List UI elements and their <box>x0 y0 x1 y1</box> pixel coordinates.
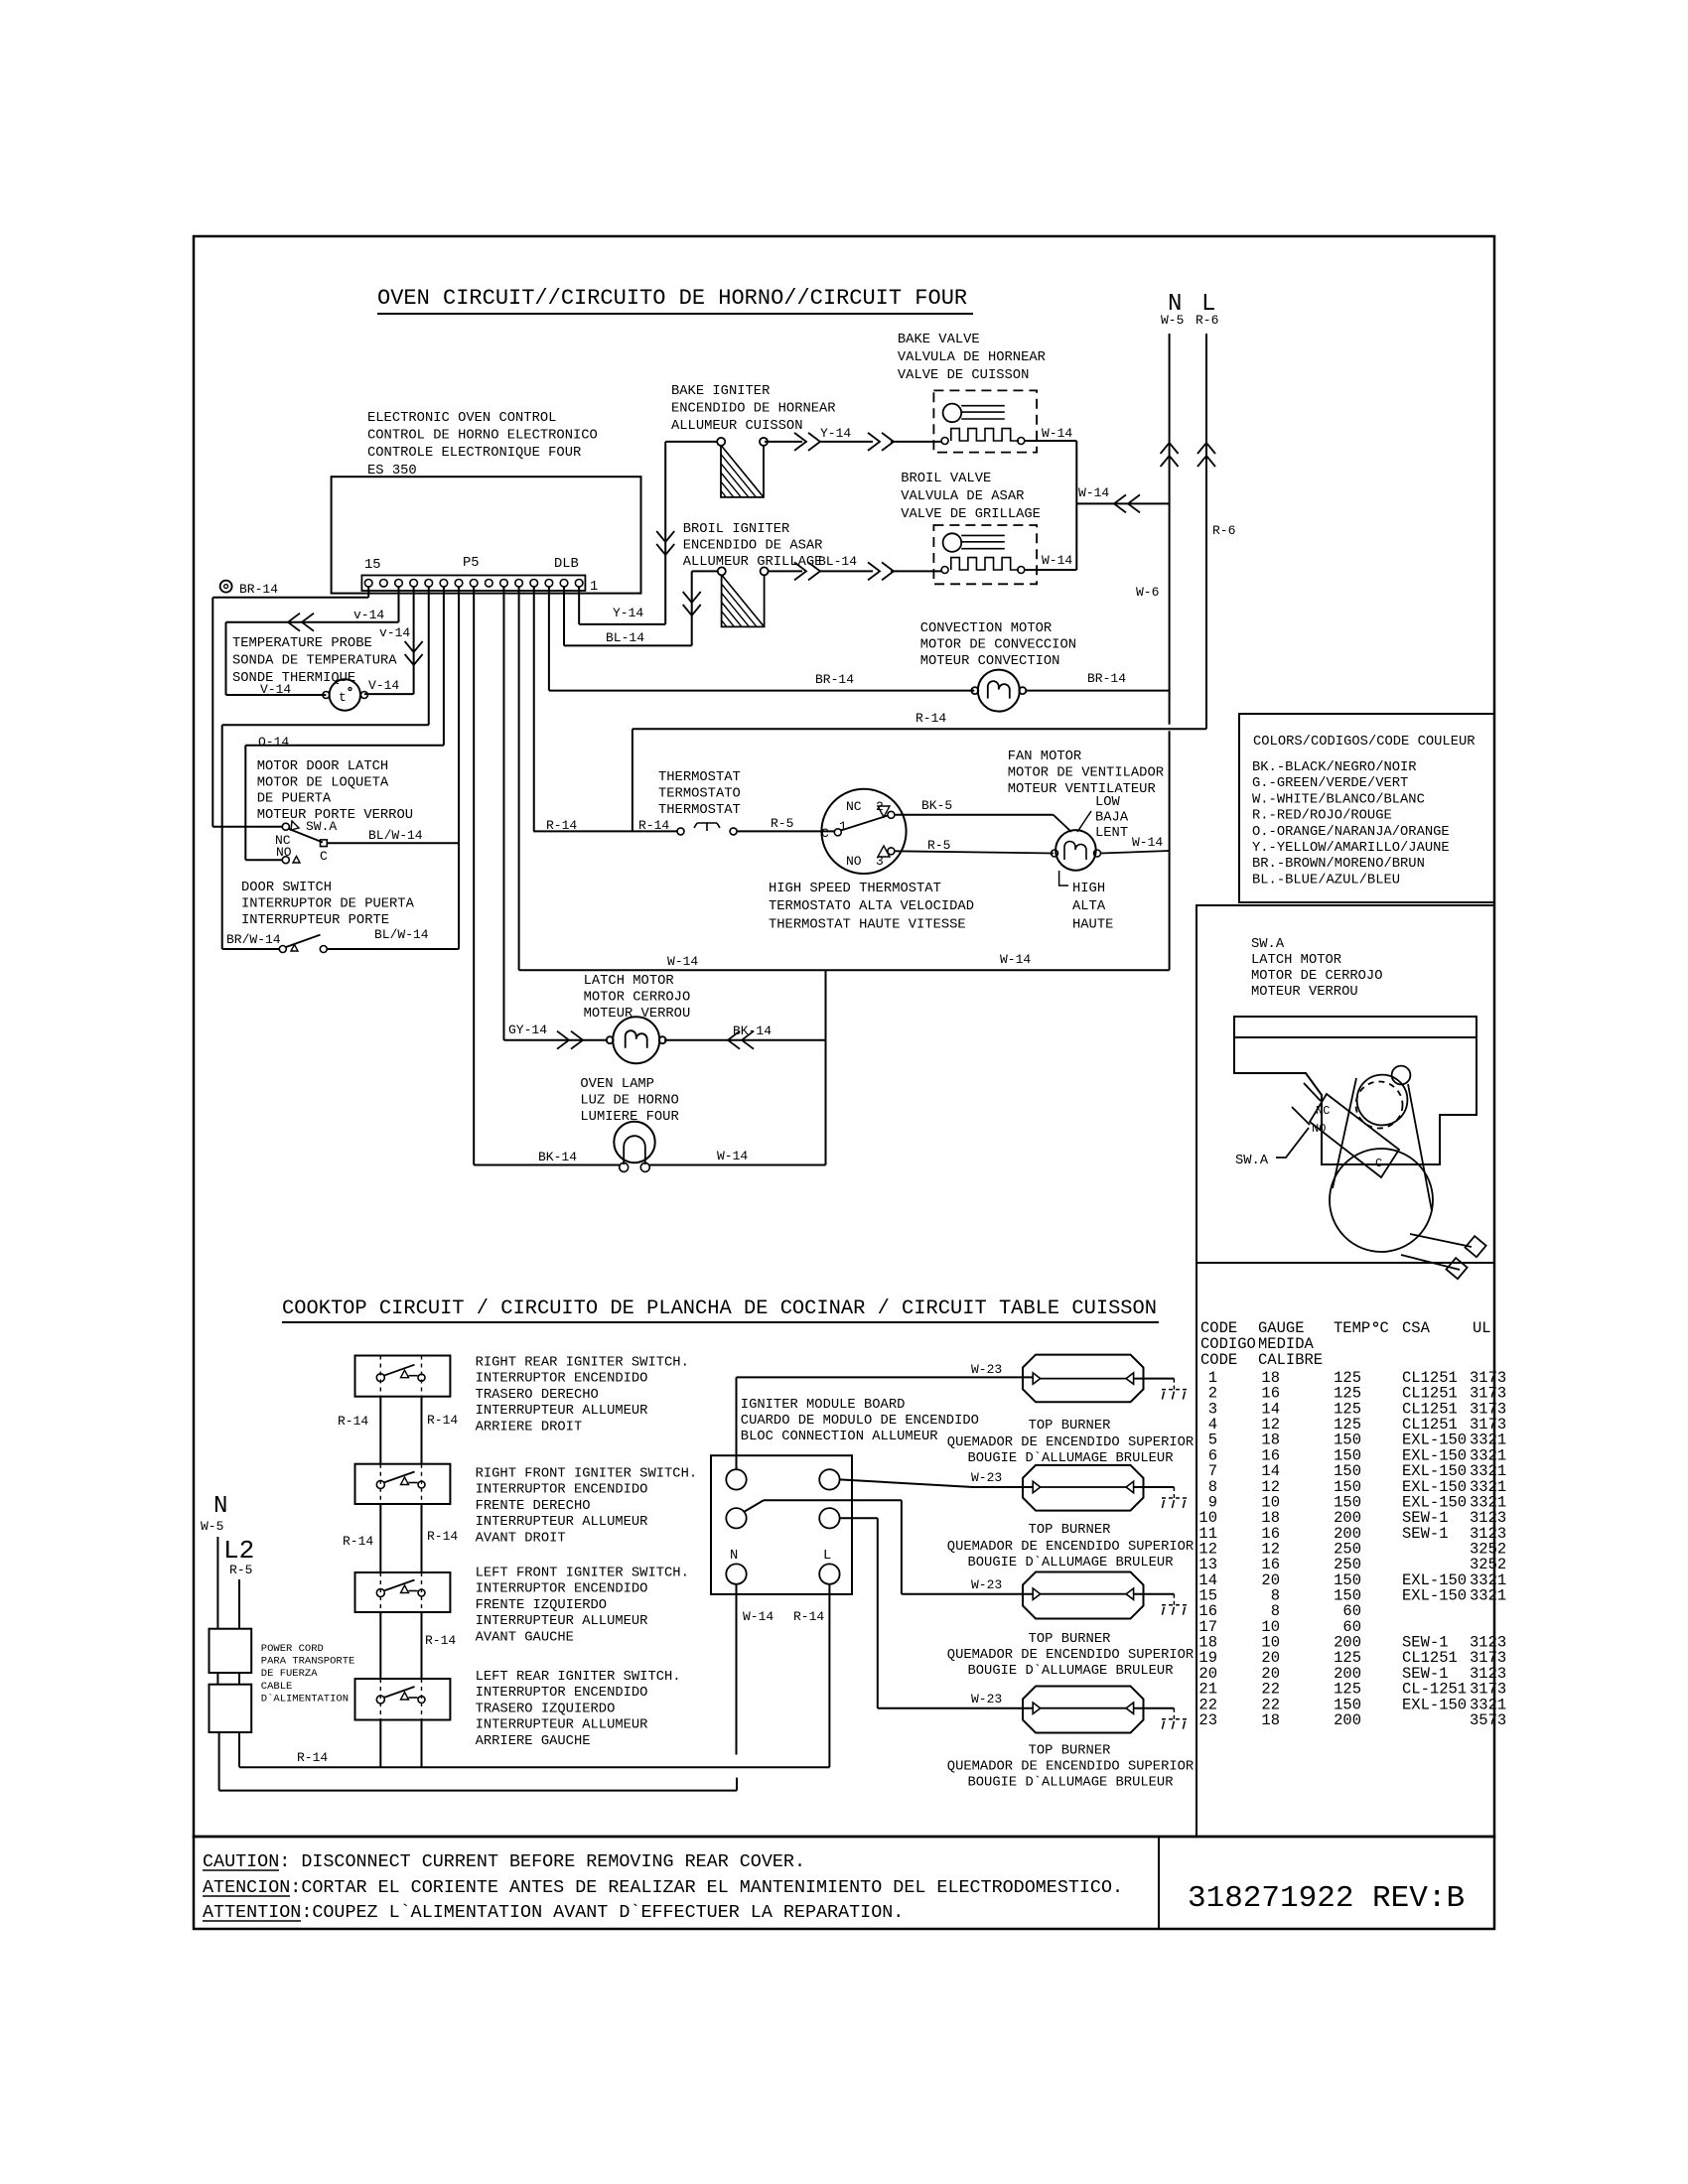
svg-text:P5: P5 <box>463 556 480 571</box>
svg-text:W-23: W-23 <box>971 1470 1002 1485</box>
svg-text:BR-14: BR-14 <box>815 672 854 687</box>
svg-text:TERMOSTATO ALTA VELOCIDAD: TERMOSTATO ALTA VELOCIDAD <box>769 899 974 914</box>
svg-text:BK.-BLACK/NEGRO/NOIR: BK.-BLACK/NEGRO/NOIR <box>1252 759 1417 775</box>
svg-text:FRENTE DERECHO: FRENTE DERECHO <box>476 1499 591 1514</box>
svg-text:BR.-BROWN/MORENO/BRUN: BR.-BROWN/MORENO/BRUN <box>1252 856 1425 872</box>
svg-text:2: 2 <box>876 799 884 814</box>
svg-text:INTERRUPTOR ENCENDIDO: INTERRUPTOR ENCENDIDO <box>476 1686 648 1701</box>
svg-text:MOTOR DE CONVECCION: MOTOR DE CONVECCION <box>920 638 1076 653</box>
svg-text:V-14: V-14 <box>368 678 399 693</box>
svg-text:O.-ORANGE/NARANJA/ORANGE: O.-ORANGE/NARANJA/ORANGE <box>1252 824 1450 840</box>
svg-text:INTERRUPTEUR ALLUMEUR: INTERRUPTEUR ALLUMEUR <box>476 1404 648 1419</box>
svg-text:ELECTRONIC OVEN CONTROL: ELECTRONIC OVEN CONTROL <box>367 411 556 426</box>
svg-text:BOUGIE D`ALLUMAGE BRULEUR: BOUGIE D`ALLUMAGE BRULEUR <box>968 1775 1174 1791</box>
svg-text:Y.-YELLOW/AMARILLO/JAUNE: Y.-YELLOW/AMARILLO/JAUNE <box>1252 840 1450 856</box>
svg-text:MOTOR DOOR LATCH: MOTOR DOOR LATCH <box>257 759 388 774</box>
svg-text:TOP BURNER: TOP BURNER <box>1029 1419 1111 1433</box>
svg-text:W-5: W-5 <box>1161 313 1184 328</box>
svg-text:ALTA: ALTA <box>1072 899 1106 914</box>
svg-text:R-14: R-14 <box>793 1609 824 1624</box>
svg-text:Y-14: Y-14 <box>613 606 643 620</box>
svg-text:NC: NC <box>1316 1104 1330 1118</box>
svg-text:CODE: CODE <box>1200 1351 1237 1369</box>
svg-text:BL.-BLUE/AZUL/BLEU: BL.-BLUE/AZUL/BLEU <box>1252 872 1400 887</box>
svg-text:GY-14: GY-14 <box>508 1023 547 1037</box>
svg-text:200: 200 <box>1334 1711 1361 1729</box>
svg-text:BR/W-14: BR/W-14 <box>226 932 281 947</box>
svg-text:D`ALIMENTATION: D`ALIMENTATION <box>261 1692 349 1705</box>
svg-text:CABLE: CABLE <box>261 1681 293 1693</box>
svg-text:VALVE DE GRILLAGE: VALVE DE GRILLAGE <box>901 507 1041 522</box>
svg-text:BAJA: BAJA <box>1095 811 1129 826</box>
svg-text:NO: NO <box>846 854 862 869</box>
svg-text:COOKTOP CIRCUIT / CIRCUITO DE: COOKTOP CIRCUIT / CIRCUITO DE PLANCHA DE… <box>282 1297 1157 1320</box>
svg-text:R-14: R-14 <box>915 711 946 726</box>
svg-text:23: 23 <box>1198 1711 1217 1729</box>
svg-text:TEMP C: TEMP C <box>1334 1319 1389 1337</box>
svg-text:DE FUERZA: DE FUERZA <box>261 1668 318 1680</box>
svg-text:TERMOSTATO: TERMOSTATO <box>658 787 741 802</box>
svg-text:W-14: W-14 <box>1042 553 1072 568</box>
svg-text:SW.A: SW.A <box>1251 937 1285 952</box>
svg-text:R-14: R-14 <box>427 1413 458 1428</box>
svg-text:CAUTION: DISCONNECT CURRENT BE: CAUTION: DISCONNECT CURRENT BEFORE REMOV… <box>203 1851 805 1872</box>
svg-text:W-14: W-14 <box>1132 835 1163 850</box>
svg-text:O-14: O-14 <box>258 735 289 750</box>
svg-text:W-23: W-23 <box>971 1362 1002 1377</box>
svg-text:L2: L2 <box>223 1536 254 1566</box>
svg-text:R.-RED/ROJO/ROUGE: R.-RED/ROJO/ROUGE <box>1252 808 1392 824</box>
svg-text:BR-14: BR-14 <box>1087 671 1126 686</box>
svg-text:INTERRUPTEUR ALLUMEUR: INTERRUPTEUR ALLUMEUR <box>476 1718 648 1733</box>
svg-text:N: N <box>730 1549 738 1564</box>
svg-text:INTERRUPTOR ENCENDIDO: INTERRUPTOR ENCENDIDO <box>476 1372 648 1387</box>
svg-text:R-6: R-6 <box>1212 523 1235 538</box>
svg-text:THERMOSTAT HAUTE VITESSE: THERMOSTAT HAUTE VITESSE <box>769 917 966 932</box>
svg-text:QUEMADOR DE ENCENDIDO SUPERIOR: QUEMADOR DE ENCENDIDO SUPERIOR <box>947 1648 1194 1663</box>
svg-text:TOP BURNER: TOP BURNER <box>1029 1523 1111 1538</box>
svg-text:ES 350: ES 350 <box>367 464 417 478</box>
svg-text:ENCENDIDO DE ASAR: ENCENDIDO DE ASAR <box>683 539 823 554</box>
svg-text:R-6: R-6 <box>1196 313 1218 328</box>
svg-text:BK-14: BK-14 <box>733 1024 772 1038</box>
svg-text:FAN MOTOR: FAN MOTOR <box>1008 750 1082 764</box>
svg-text:CONTROL DE HORNO ELECTRONICO: CONTROL DE HORNO ELECTRONICO <box>367 429 598 444</box>
svg-text:W-14: W-14 <box>1000 952 1031 967</box>
svg-text:R-5: R-5 <box>771 816 793 831</box>
svg-text:3573: 3573 <box>1470 1711 1506 1729</box>
svg-text:INTERRUPTOR ENCENDIDO: INTERRUPTOR ENCENDIDO <box>476 1582 648 1597</box>
svg-text:LATCH MOTOR: LATCH MOTOR <box>1251 953 1341 968</box>
svg-text:Y-14: Y-14 <box>820 426 851 441</box>
svg-text:INTERRUPTOR DE PUERTA: INTERRUPTOR DE PUERTA <box>241 897 415 912</box>
svg-text:318271922 REV:B: 318271922 REV:B <box>1188 1881 1465 1916</box>
svg-text:N: N <box>213 1493 227 1520</box>
svg-text:MOTEUR VERROU: MOTEUR VERROU <box>584 1007 691 1022</box>
svg-text:VALVULA DE HORNEAR: VALVULA DE HORNEAR <box>898 350 1046 365</box>
svg-text:VALVULA DE ASAR: VALVULA DE ASAR <box>901 489 1024 504</box>
svg-text:3321: 3321 <box>1470 1587 1506 1605</box>
svg-text:W-14: W-14 <box>1078 485 1109 500</box>
svg-text:SW.A: SW.A <box>306 819 337 834</box>
svg-text:MOTOR DE LOQUETA: MOTOR DE LOQUETA <box>257 775 389 790</box>
svg-text:LATCH MOTOR: LATCH MOTOR <box>584 974 674 989</box>
svg-text:W-23: W-23 <box>971 1692 1002 1706</box>
svg-text:QUEMADOR DE ENCENDIDO SUPERIOR: QUEMADOR DE ENCENDIDO SUPERIOR <box>947 1540 1194 1555</box>
svg-text:CONVECTION MOTOR: CONVECTION MOTOR <box>920 621 1052 636</box>
svg-text:C: C <box>821 826 829 841</box>
svg-text:NO: NO <box>1312 1122 1326 1136</box>
svg-text:OVEN LAMP: OVEN LAMP <box>580 1077 654 1092</box>
svg-text:UL: UL <box>1473 1319 1491 1337</box>
svg-text:VALVE DE CUISSON: VALVE DE CUISSON <box>898 368 1029 383</box>
svg-text:INTERRUPTEUR ALLUMEUR: INTERRUPTEUR ALLUMEUR <box>476 1515 648 1530</box>
svg-text:LUZ DE HORNO: LUZ DE HORNO <box>580 1094 678 1109</box>
svg-text:THERMOSTAT: THERMOSTAT <box>658 803 741 818</box>
svg-text:INTERRUPTEUR ALLUMEUR: INTERRUPTEUR ALLUMEUR <box>476 1614 648 1629</box>
svg-text:CSA: CSA <box>1402 1319 1431 1337</box>
svg-text:MOTEUR CONVECTION: MOTEUR CONVECTION <box>920 654 1060 669</box>
svg-text:RIGHT REAR IGNITER SWITCH.: RIGHT REAR IGNITER SWITCH. <box>476 1356 689 1371</box>
svg-text:TEMPERATURE PROBE: TEMPERATURE PROBE <box>232 636 372 651</box>
svg-text:DE PUERTA: DE PUERTA <box>257 792 332 807</box>
svg-text:SONDA DE TEMPERATURA: SONDA DE TEMPERATURA <box>232 654 397 669</box>
svg-text:BAKE IGNITER: BAKE IGNITER <box>671 384 770 399</box>
svg-text:TOP BURNER: TOP BURNER <box>1029 1744 1111 1759</box>
svg-text:W.-WHITE/BLANCO/BLANC: W.-WHITE/BLANCO/BLANC <box>1252 791 1425 807</box>
svg-text:EXL-150: EXL-150 <box>1402 1587 1467 1605</box>
svg-text:MOTOR DE CERROJO: MOTOR DE CERROJO <box>1251 969 1382 984</box>
svg-text:BOUGIE D`ALLUMAGE BRULEUR: BOUGIE D`ALLUMAGE BRULEUR <box>968 1663 1174 1679</box>
svg-text:1: 1 <box>839 819 847 834</box>
svg-text:HIGH SPEED THERMOSTAT: HIGH SPEED THERMOSTAT <box>769 882 941 896</box>
svg-text:W-14: W-14 <box>667 954 698 969</box>
svg-text:RIGHT FRONT IGNITER SWITCH.: RIGHT FRONT IGNITER SWITCH. <box>476 1467 698 1482</box>
svg-text:1: 1 <box>590 580 598 595</box>
svg-text:BK-14: BK-14 <box>538 1150 577 1164</box>
svg-text:PARA TRANSPORTE: PARA TRANSPORTE <box>261 1656 355 1668</box>
svg-text:W-14: W-14 <box>743 1609 774 1624</box>
svg-text:C: C <box>320 849 328 864</box>
svg-text:BROIL IGNITER: BROIL IGNITER <box>683 522 790 537</box>
svg-text:BL-14: BL-14 <box>606 630 644 645</box>
svg-text:HIGH: HIGH <box>1072 882 1105 896</box>
svg-text:BL/W-14: BL/W-14 <box>368 828 423 843</box>
svg-text:SW.A: SW.A <box>1235 1154 1269 1168</box>
svg-text:QUEMADOR DE ENCENDIDO SUPERIOR: QUEMADOR DE ENCENDIDO SUPERIOR <box>947 1435 1194 1450</box>
svg-text:R-5: R-5 <box>927 838 950 853</box>
svg-text:AVANT DROIT: AVANT DROIT <box>476 1531 566 1546</box>
svg-text:AVANT GAUCHE: AVANT GAUCHE <box>476 1630 574 1645</box>
svg-text:SEW-1: SEW-1 <box>1402 1525 1449 1543</box>
svg-text:W-14: W-14 <box>1042 426 1072 441</box>
svg-text:INTERRUPTEUR PORTE: INTERRUPTEUR PORTE <box>241 913 389 928</box>
svg-text:OVEN CIRCUIT//CIRCUITO DE HORN: OVEN CIRCUIT//CIRCUITO DE HORNO//CIRCUIT… <box>377 286 967 311</box>
svg-text:MOTOR DE VENTILADOR: MOTOR DE VENTILADOR <box>1008 766 1164 781</box>
svg-text:C: C <box>1375 1157 1382 1170</box>
svg-text:LENT: LENT <box>1095 826 1128 841</box>
svg-text:R-14: R-14 <box>425 1633 456 1648</box>
svg-text:LEFT REAR IGNITER SWITCH.: LEFT REAR IGNITER SWITCH. <box>476 1670 681 1685</box>
svg-text:L: L <box>823 1549 831 1564</box>
svg-text:CONTROLE ELECTRONIQUE FOUR: CONTROLE ELECTRONIQUE FOUR <box>367 446 581 461</box>
svg-text:DOOR SWITCH: DOOR SWITCH <box>241 881 332 895</box>
svg-text:R-14: R-14 <box>343 1534 373 1549</box>
svg-text:15: 15 <box>364 558 381 573</box>
svg-text:CUARDO DE MODULO DE ENCENDIDO: CUARDO DE MODULO DE ENCENDIDO <box>741 1414 979 1429</box>
svg-text:ALLUMEUR CUISSON: ALLUMEUR CUISSON <box>671 419 802 434</box>
svg-text:ARRIERE GAUCHE: ARRIERE GAUCHE <box>476 1734 591 1749</box>
svg-text:THERMOSTAT: THERMOSTAT <box>658 770 741 785</box>
svg-text:TRASERO IZQUIERDO: TRASERO IZQUIERDO <box>476 1702 616 1716</box>
svg-text:W-23: W-23 <box>971 1577 1002 1592</box>
svg-text:v-14: v-14 <box>379 625 410 640</box>
svg-text:ENCENDIDO DE HORNEAR: ENCENDIDO DE HORNEAR <box>671 402 836 417</box>
svg-text:R-14: R-14 <box>427 1529 458 1544</box>
svg-text:R-14: R-14 <box>297 1750 328 1765</box>
svg-text:G.-GREEN/VERDE/VERT: G.-GREEN/VERDE/VERT <box>1252 775 1408 791</box>
svg-text:SONDE THERMIQUE: SONDE THERMIQUE <box>232 671 355 686</box>
svg-text:EXL-150: EXL-150 <box>1402 1696 1467 1713</box>
svg-text:ATTENTION:COUPEZ L`ALIMENTATIO: ATTENTION:COUPEZ L`ALIMENTATION AVANT D`… <box>203 1902 904 1923</box>
svg-text:BOUGIE D`ALLUMAGE BRULEUR: BOUGIE D`ALLUMAGE BRULEUR <box>968 1450 1174 1466</box>
svg-text:t: t <box>339 690 347 705</box>
svg-text:BOUGIE D`ALLUMAGE BRULEUR: BOUGIE D`ALLUMAGE BRULEUR <box>968 1555 1174 1570</box>
svg-text:BL-14: BL-14 <box>818 554 857 569</box>
svg-text:3: 3 <box>876 854 884 869</box>
svg-text:BK-5: BK-5 <box>921 798 952 813</box>
svg-text:ARRIERE DROIT: ARRIERE DROIT <box>476 1420 583 1434</box>
svg-text:LOW: LOW <box>1095 795 1121 810</box>
svg-text:IGNITER MODULE BOARD: IGNITER MODULE BOARD <box>741 1398 906 1413</box>
svg-text:MOTEUR VENTILATEUR: MOTEUR VENTILATEUR <box>1008 782 1156 797</box>
svg-text:COLORS/CODIGOS/CODE COULEUR: COLORS/CODIGOS/CODE COULEUR <box>1253 734 1476 750</box>
svg-text:INTERRUPTOR ENCENDIDO: INTERRUPTOR ENCENDIDO <box>476 1483 648 1498</box>
svg-text:BR-14: BR-14 <box>239 582 278 597</box>
svg-text:DLB: DLB <box>554 557 579 572</box>
svg-text:W-6: W-6 <box>1136 585 1159 600</box>
svg-text:BL/W-14: BL/W-14 <box>374 927 429 942</box>
svg-text:LEFT FRONT IGNITER SWITCH.: LEFT FRONT IGNITER SWITCH. <box>476 1567 689 1581</box>
svg-text:v-14: v-14 <box>353 608 384 622</box>
svg-text:POWER CORD: POWER CORD <box>261 1643 324 1655</box>
svg-text:BAKE VALVE: BAKE VALVE <box>898 333 980 347</box>
svg-text:BROIL VALVE: BROIL VALVE <box>901 472 991 486</box>
svg-text:ATENCION:CORTAR EL CORIENTE AN: ATENCION:CORTAR EL CORIENTE ANTES DE REA… <box>203 1877 1123 1898</box>
svg-text:FRENTE IZQUIERDO: FRENTE IZQUIERDO <box>476 1598 607 1613</box>
svg-text:NC: NC <box>846 799 862 814</box>
svg-text:HAUTE: HAUTE <box>1072 917 1113 932</box>
svg-text:R-5: R-5 <box>229 1563 252 1577</box>
svg-text:MOTOR CERROJO: MOTOR CERROJO <box>584 991 691 1006</box>
svg-text:18: 18 <box>1261 1711 1280 1729</box>
svg-text:W-14: W-14 <box>717 1149 748 1163</box>
svg-text:TOP BURNER: TOP BURNER <box>1029 1632 1111 1647</box>
svg-text:QUEMADOR DE ENCENDIDO SUPERIOR: QUEMADOR DE ENCENDIDO SUPERIOR <box>947 1760 1194 1775</box>
svg-text:CALIBRE: CALIBRE <box>1258 1351 1323 1369</box>
svg-text:BLOC CONNECTION ALLUMEUR: BLOC CONNECTION ALLUMEUR <box>741 1430 938 1444</box>
svg-text:R-14: R-14 <box>338 1414 368 1429</box>
svg-text:MOTEUR VERROU: MOTEUR VERROU <box>1251 985 1358 1000</box>
svg-text:TRASERO DERECHO: TRASERO DERECHO <box>476 1388 599 1403</box>
svg-text:W-5: W-5 <box>201 1519 223 1534</box>
